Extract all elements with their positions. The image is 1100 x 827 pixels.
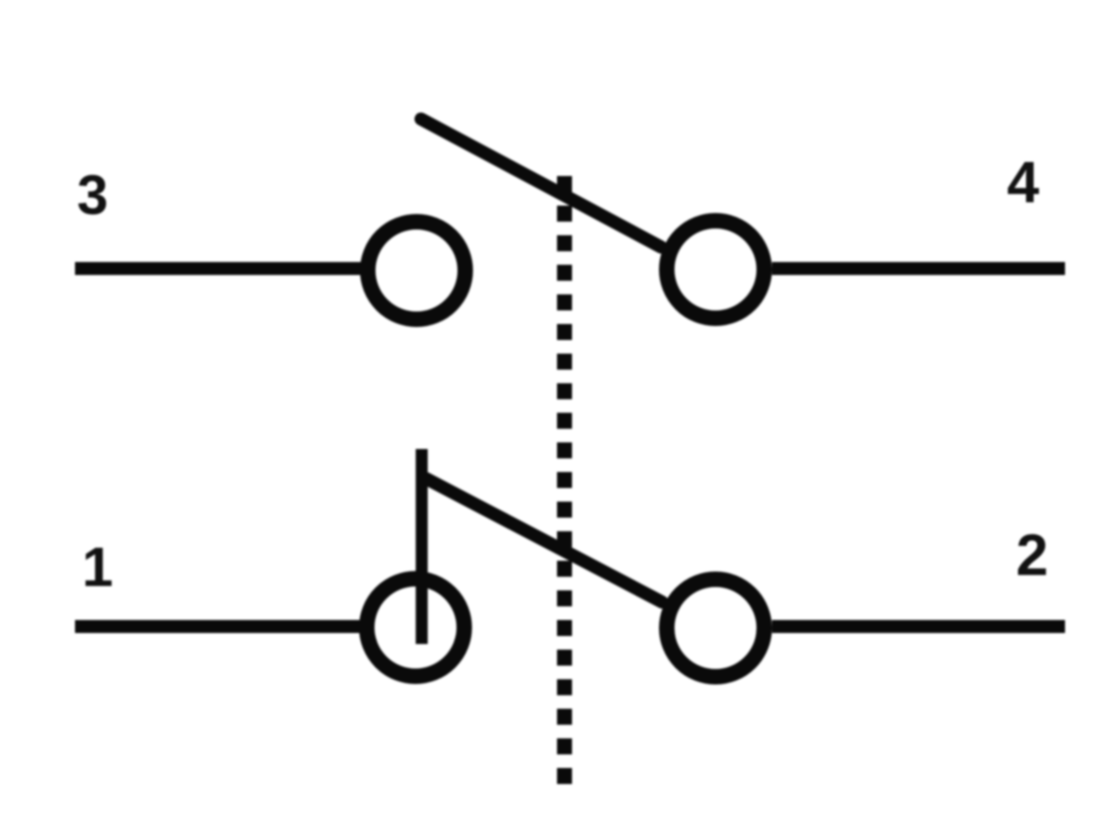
switch lever, pole B [426,479,662,603]
actuator plunger [416,449,428,644]
svg-text:4: 4 [1007,150,1039,215]
mechanical link (dotted line) [557,176,572,784]
contact circle, pole B left (pin 1) [367,579,465,677]
svg-text:1: 1 [82,535,113,598]
switch lever, pole A [421,119,661,247]
wire pin 3 lead [75,262,363,275]
contact circle, pole A right (pin 4) [667,221,765,319]
svg-text:2: 2 [1016,523,1048,588]
svg-text:3: 3 [77,163,108,226]
wire pin 1 lead [75,620,362,633]
wire pin 4 lead [772,262,1065,275]
contact circle, pole A left (pin 3) [368,222,466,320]
wire pin 2 lead [772,620,1065,633]
contact circle, pole B right (pin 2) [667,579,765,677]
